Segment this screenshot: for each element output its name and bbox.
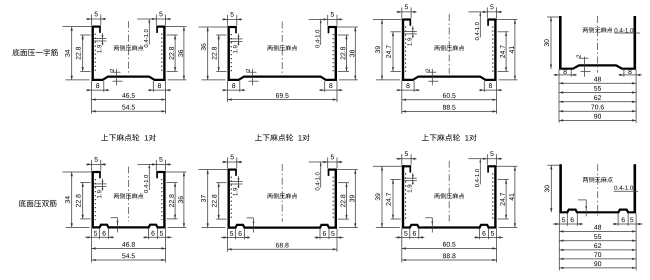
dim 5-6 boxes left U8-r2c4: [566, 213, 568, 226]
dim 70.6 U4-r1c4: [559, 110, 636, 112]
dim 5-6 boxes right U5-r2c1: [157, 228, 159, 239]
label row1 bottom-rib type: [12, 49, 19, 56]
dim 22.8 right U5-r2c1: [167, 182, 178, 184]
dim 5 right U6-r2c2: [327, 158, 329, 169]
text knurl U7-r2c3: [434, 194, 439, 199]
extension lines bottom U8-r2c4: [558, 213, 560, 270]
profile U6-r2c2 right lip: [328, 169, 337, 171]
dim 22.8 left U6-r2c2: [216, 182, 226, 184]
rib leader U5-r2c1: [111, 217, 118, 219]
profile U1-r1c1 left wall: [91, 26, 93, 80]
dim 5-6 boxes right U7-r2c3: [488, 229, 490, 240]
dim 8 right box U3-r1c3: [483, 81, 485, 92]
dim 22.8 right U1-r1c1: [167, 34, 178, 36]
dim 22.8 right U2-r1c2: [338, 34, 349, 36]
centerline U4-r1c4: [597, 16, 599, 73]
dim 5-6 boxes left U7-r2c3: [409, 229, 411, 240]
profile U6-r2c2 left wall: [227, 169, 229, 228]
dim 22.8 left U1-r1c1: [80, 34, 90, 36]
dim 48 U4-r1c4: [559, 82, 636, 84]
dim 8 left box U1-r1c1: [103, 81, 105, 92]
text knurl U6-r2c2: [267, 194, 272, 199]
dim 90 U4-r1c4: [559, 119, 636, 121]
profile U2-r1c2 left wall: [227, 26, 229, 80]
knurl dots U3-r1c3: [405, 27, 407, 73]
dim 0.4-1.0 U1-r1c1: [137, 18, 151, 20]
dim 5 left U1-r1c1: [91, 15, 93, 26]
rib leader U6-r2c2: [247, 217, 254, 219]
dim 5 left U2-r1c2: [227, 15, 229, 26]
profile U8-r2c4 left wall: [559, 164, 562, 212]
centerline U7-r2c3: [448, 161, 450, 222]
dim 5 left U7-r2c3: [401, 154, 403, 165]
extension lines bottom U5-r2c1: [91, 228, 93, 262]
dim 24.7 right U3-r1c3: [498, 31, 509, 33]
profile U6-r2c2 right wall: [335, 169, 337, 228]
dim 55 U4-r1c4: [559, 92, 636, 94]
dim 1.9 U1-r1c1: [94, 38, 107, 40]
extension lines bottom U3-r1c3: [401, 81, 403, 114]
dim 8 left box U4-r1c4: [570, 70, 572, 77]
dim 5-6 boxes left U6-r2c2: [235, 229, 237, 240]
dim 1.9 U3-r1c3: [404, 30, 417, 32]
extension lines bottom U1-r1c1: [91, 81, 93, 114]
profile U3-r1c3 left wall: [402, 19, 404, 80]
dim 70 U8-r2c4: [559, 258, 636, 260]
centerline U6-r2c2: [281, 164, 283, 222]
profile U1-r1c1 left lip: [92, 26, 101, 28]
profile U4-r1c4 bottom: [559, 65, 636, 68]
dim 5 left U3-r1c3: [401, 7, 403, 18]
centerline U5-r2c1: [128, 167, 130, 222]
dim 0.4-1.0 U5-r2c1: [137, 163, 151, 165]
dim 2 rib U4-r1c4: [576, 55, 580, 58]
dim 8 right box U2-r1c2: [324, 81, 326, 92]
profile U7-r2c3 right wall: [494, 165, 496, 227]
knurl dots U1-r1c1: [94, 34, 96, 73]
knurl dots U2-r1c2: [230, 34, 232, 72]
dim 90 U8-r2c4: [559, 267, 636, 269]
dim 0.4-1.0 U4-r1c4: [614, 28, 633, 32]
text knurl U5-r2c1: [114, 194, 119, 199]
label knurl-roller pair under column at x=449.1: [422, 134, 429, 141]
dim 37 U6-r2c2: [199, 169, 228, 171]
text knurl U2-r1c2: [267, 46, 272, 51]
dim 54.5 U5-r2c1: [92, 259, 166, 261]
profile U7-r2c3 left lip: [402, 165, 411, 167]
dim 36 U2-r1c2: [199, 26, 228, 28]
dim 36 U5-r2c1: [166, 171, 187, 173]
centerline U3-r1c3: [448, 14, 450, 74]
profile U3-r1c3 bottom: [402, 77, 497, 80]
dim 8 right box U4-r1c4: [623, 70, 625, 77]
dim 1.9 U6-r2c2: [230, 181, 243, 183]
knurl dots U5-r2c1: [94, 179, 96, 220]
label knurl-roller pair under column at x=282.2: [255, 134, 262, 141]
text knurl U3-r1c3: [434, 46, 439, 51]
rib leader U7-r2c3: [425, 217, 432, 219]
profile U5-r2c1 bottom: [92, 225, 166, 228]
dim 88.5 U3-r1c3: [402, 110, 497, 112]
dim 1.9 U2-r1c2: [230, 38, 243, 40]
profile U5-r2c1 right lip: [156, 171, 165, 173]
dim 39 U6-r2c2: [337, 169, 358, 171]
dim 39 U7-r2c3: [373, 165, 402, 167]
dim 22.8 left U5-r2c1: [80, 182, 90, 184]
profile U3-r1c3 right wall: [494, 19, 496, 80]
profile U5-r2c1 right wall: [163, 171, 165, 227]
dim 24.7 left U3-r1c3: [391, 31, 401, 33]
dim 60.5 U7-r2c3: [402, 248, 497, 250]
dim 5 right U3-r1c3: [486, 7, 488, 18]
dim 0.4-1.0 U8-r2c4: [614, 186, 633, 190]
dim 46.8 U5-r2c1: [92, 248, 166, 250]
dim 5 left U6-r2c2: [227, 158, 229, 169]
dim 0.4-1.0 U6-r2c2: [309, 161, 323, 163]
dim 1.9 U7-r2c3: [404, 177, 417, 179]
dim 5 left U5-r2c1: [91, 160, 93, 171]
dim 5 right U7-r2c3: [486, 154, 488, 165]
dim 5-6 boxes left U5-r2c1: [99, 228, 101, 239]
profile U3-r1c3 left lip: [402, 18, 411, 20]
dim 2 rib U2-r1c2: [246, 69, 250, 72]
dim 34 U1-r1c1: [63, 26, 92, 28]
profile U3-r1c3 right lip: [487, 18, 496, 20]
dim 62 U8-r2c4: [559, 249, 636, 251]
profile U2-r1c2 left lip: [228, 26, 237, 28]
extension lines bottom U6-r2c2: [227, 229, 229, 252]
dim 62 U4-r1c4: [559, 101, 636, 103]
dim 68.8 U6-r2c2: [228, 248, 338, 250]
text no-knurl U8-r2c4: [583, 177, 588, 182]
profile U7-r2c3 right lip: [487, 165, 496, 167]
profile U6-r2c2 left lip: [228, 169, 237, 171]
dim 22.8 right U6-r2c2: [338, 182, 349, 184]
dim 0.4-1.0 U3-r1c3: [468, 11, 482, 13]
dim 60.5 U3-r1c3: [402, 99, 497, 101]
extension lines bottom U7-r2c3: [401, 229, 403, 263]
dim 41 U3-r1c3: [497, 19, 518, 21]
dim 30 U8-r2c4: [547, 164, 559, 166]
dim 2 rib U3-r1c3: [426, 69, 430, 72]
profile U7-r2c3 left wall: [402, 165, 404, 227]
centerline U2-r1c2: [281, 22, 283, 74]
profile U1-r1c1 right lip: [156, 26, 165, 28]
dim 5-6 boxes right U8-r2c4: [627, 213, 629, 226]
dim 0.4-1.0 U7-r2c3: [468, 158, 482, 160]
dim 24.7 right U7-r2c3: [498, 178, 509, 180]
profile U5-r2c1 left wall: [91, 171, 93, 227]
dim 0.4-1.0 U2-r1c2: [309, 18, 323, 20]
centerline U1-r1c1: [128, 21, 130, 74]
knurl dots U7-r2c3: [405, 173, 407, 220]
dim 5-6 boxes right U6-r2c2: [328, 229, 330, 240]
dim 34 U5-r2c1: [63, 171, 92, 173]
dim 55 U8-r2c4: [559, 240, 636, 242]
dim 22.8 left U2-r1c2: [216, 34, 226, 36]
profile U4-r1c4 left wall: [559, 16, 562, 69]
dim 2 rib U1-r1c1: [110, 69, 114, 72]
text knurl U1-r1c1: [114, 46, 119, 51]
profile U8-r2c4 right wall: [633, 164, 636, 212]
text no-knurl U4-r1c4: [583, 28, 588, 33]
dim 24.7 left U7-r2c3: [391, 178, 401, 180]
dim 30 U4-r1c4: [547, 16, 559, 18]
profile U2-r1c2 bottom: [228, 77, 338, 80]
dim 54.5 U1-r1c1: [92, 110, 166, 112]
rib leader U8-r2c4: [578, 199, 586, 201]
dim 8 left box U2-r1c2: [239, 81, 241, 92]
dim 88.8 U7-r2c3: [402, 259, 497, 261]
profile U6-r2c2 bottom: [228, 225, 338, 228]
dim 36 U1-r1c1: [166, 26, 187, 28]
extension lines bottom U2-r1c2: [227, 81, 229, 102]
label row2 bottom-rib type: [19, 200, 26, 207]
dim 48 U8-r2c4: [559, 230, 636, 232]
dim 39 U3-r1c3: [373, 19, 402, 21]
knurl dots U6-r2c2: [230, 177, 232, 221]
profile U8-r2c4 bottom: [559, 210, 636, 213]
profile U1-r1c1 bottom: [92, 77, 166, 80]
dim 1.9 U5-r2c1: [94, 183, 107, 185]
dim 69.5 U2-r1c2: [228, 99, 338, 101]
label knurl-roller pair under column at x=128.5: [101, 134, 108, 141]
profile U7-r2c3 bottom: [402, 225, 497, 228]
dim 38 U2-r1c2: [337, 26, 358, 28]
dim 8 left box U3-r1c3: [413, 81, 415, 92]
profile U2-r1c2 right wall: [335, 26, 337, 80]
dim 5 right U1-r1c1: [155, 15, 157, 26]
dim 5 right U5-r2c1: [155, 160, 157, 171]
centerline U8-r2c4: [597, 164, 599, 216]
profile U1-r1c1 right wall: [163, 26, 165, 80]
dim 46.5 U1-r1c1: [92, 99, 166, 101]
profile U5-r2c1 left lip: [92, 171, 101, 173]
profile U4-r1c4 right wall: [633, 16, 636, 69]
dim 41 U7-r2c3: [497, 165, 518, 167]
extension lines bottom U4-r1c4: [558, 70, 560, 123]
dim 8 right box U1-r1c1: [152, 81, 154, 92]
dim 5 right U2-r1c2: [327, 15, 329, 26]
profile U2-r1c2 right lip: [328, 26, 337, 28]
